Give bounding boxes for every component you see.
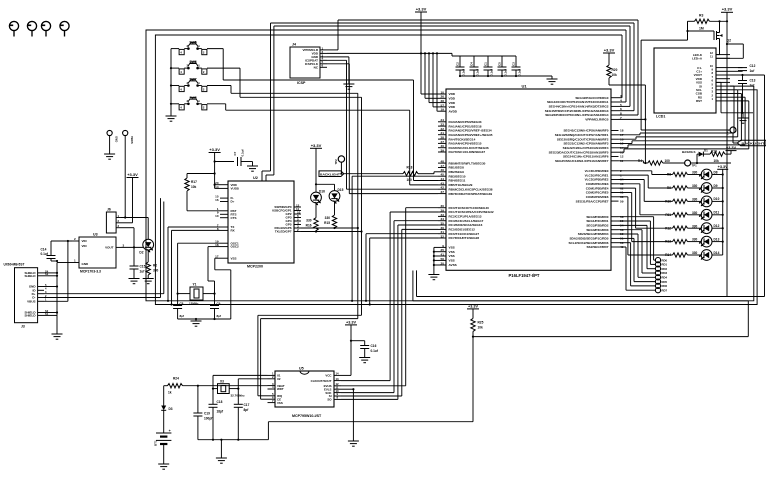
- ground C16: [359, 358, 370, 363]
- svg-text:C9: C9: [217, 302, 221, 306]
- svg-text:D10: D10: [714, 197, 720, 201]
- svg-text:21: 21: [441, 131, 445, 135]
- diode D1 BAS20LS: [682, 149, 710, 164]
- capacitor C5 bypass: [498, 56, 508, 76]
- wire LCD LED+A to 3.3V rail: [716, 44, 743, 58]
- svg-text:RB6/ICDCLK/ICSPCLK/SEG38: RB6/ICDCLK/ICSPCLK/SEG38: [449, 187, 493, 191]
- resistor R16 330 D16: [306, 218, 319, 232]
- svg-text:AVDD: AVDD: [449, 109, 458, 113]
- svg-text:+3.3V: +3.3V: [718, 165, 728, 169]
- node VBUS circle 1: [107, 130, 119, 154]
- resistor R24 1k: [164, 377, 268, 395]
- wire U2 RX via loop: [172, 230, 221, 304]
- wire R25 loop to RD7: [413, 271, 748, 337]
- svg-text:VSS: VSS: [449, 254, 455, 258]
- transistor Q2 P-MOSFET: [688, 21, 723, 54]
- svg-text:Q2: Q2: [727, 39, 732, 43]
- wire GP7 row: [301, 231, 362, 233]
- wire top line J4 VPP to U1 RG4: [327, 20, 638, 50]
- svg-text:RB2/SEG9: RB2/SEG9: [449, 170, 465, 174]
- svg-text:10k: 10k: [612, 73, 618, 77]
- svg-text:R2: R2: [153, 264, 157, 268]
- svg-text:R11: R11: [665, 213, 671, 217]
- U1 right pins group RD: [611, 217, 619, 247]
- svg-text:10k: 10k: [478, 326, 484, 330]
- svg-text:CLKOUT/SOUT: CLKOUT/SOUT: [311, 379, 332, 383]
- wire J3 shield/gnd bus: [44, 263, 72, 335]
- svg-text:+3.3V: +3.3V: [311, 143, 322, 148]
- node TP1: [685, 160, 697, 167]
- wire U5 SI to U1 RC5: [341, 229, 438, 396]
- capacitor C18 18pf: [209, 389, 224, 440]
- wire U1 RC6 TX1 via loop: [366, 234, 438, 301]
- svg-text:MCP1703-3.3: MCP1703-3.3: [80, 270, 101, 274]
- svg-text:330: 330: [692, 251, 698, 255]
- switch SW5: [179, 41, 207, 55]
- LED D16: [311, 190, 325, 218]
- resistor R2 330: [146, 262, 159, 279]
- U2 left pin labels: [231, 183, 240, 260]
- svg-text:VBUS: VBUS: [27, 300, 35, 304]
- wire GP6 row: [301, 227, 358, 229]
- power flag +3.3V J6: [127, 172, 139, 223]
- svg-text:TP2: TP2: [334, 159, 338, 165]
- switch SW6: [179, 60, 207, 74]
- svg-text:R16: R16: [306, 224, 312, 228]
- wire outer loop 1: [146, 30, 754, 301]
- resistor R3 1M: [688, 14, 728, 31]
- U1 right pins group RE: [611, 171, 619, 201]
- power flag +3.3V U1 bypass rail: [415, 7, 427, 54]
- ground Y1 caps: [191, 321, 202, 326]
- ground C7: [247, 166, 258, 171]
- LED D15: [329, 188, 343, 215]
- svg-text:10k: 10k: [714, 159, 720, 163]
- svg-text:1M: 1M: [699, 27, 704, 31]
- svg-text:13: 13: [336, 377, 340, 381]
- capacitor C2 bypass: [456, 56, 466, 76]
- U1 left pins group B RA0-RA7: [438, 122, 446, 152]
- svg-text:RA7/OSC1/CLKIN/SEG37: RA7/OSC1/CLKIN/SEG37: [449, 150, 486, 154]
- net label BACKLIGHT: [319, 171, 403, 177]
- capacitor C4 bypass: [470, 56, 480, 76]
- wire VDD rail: [327, 53, 516, 56]
- svg-text:Y1: Y1: [193, 283, 197, 287]
- wire J6 pin2 to +3.3V: [121, 222, 133, 224]
- svg-text:D11: D11: [714, 211, 720, 215]
- svg-text:+3.3V: +3.3V: [722, 7, 733, 12]
- node RD0: [619, 217, 668, 263]
- IC U5 MCP795W10 RTC body: [268, 367, 342, 419]
- svg-text:VUSB: VUSB: [231, 187, 240, 191]
- svg-text:56: 56: [441, 257, 445, 261]
- svg-text:RX: RX: [231, 229, 235, 233]
- crystal X3 32.768kHz: [213, 379, 245, 397]
- svg-text:J4: J4: [292, 43, 296, 47]
- node VBUS circle 2: [123, 130, 134, 217]
- svg-text:100: 100: [665, 159, 671, 163]
- svg-text:D9: D9: [714, 184, 718, 188]
- wire crystal ground rail: [198, 440, 269, 458]
- resistor R15 330 D15: [324, 215, 337, 228]
- svg-text:R15: R15: [324, 221, 330, 225]
- wire MCLR net: [619, 85, 646, 163]
- resistor R4 100: [638, 159, 731, 165]
- wire USB D+ to U2: [44, 202, 164, 294]
- power flag +3.3V backlight: [721, 7, 733, 22]
- wire U1 RG4 riser: [619, 20, 639, 115]
- ground R2: [143, 279, 154, 284]
- wire MCLR row R4: [619, 161, 648, 163]
- wire U5 CLKOUT to U1 RC1: [341, 212, 438, 381]
- svg-text:VSS: VSS: [449, 259, 455, 263]
- ground J3: [52, 334, 63, 339]
- connector J3 USB UX60-MB-5ST: [4, 263, 49, 329]
- svg-text:D1: D1: [704, 149, 708, 153]
- wire U1 RG2 riser: [619, 26, 631, 106]
- svg-text:R17: R17: [191, 180, 197, 184]
- node RD3: [619, 230, 668, 276]
- svg-text:330: 330: [692, 224, 698, 228]
- svg-text:U3: U3: [93, 233, 98, 237]
- ground U5: [348, 441, 359, 446]
- diode D3: [161, 386, 173, 430]
- wire switch ground bus: [171, 49, 179, 116]
- svg-text:R13: R13: [665, 240, 671, 244]
- capacitor C8 8pf: [173, 294, 184, 319]
- svg-text:TXLED/GP7: TXLED/GP7: [275, 230, 292, 234]
- svg-text:VIN: VIN: [82, 244, 87, 248]
- svg-text:100pf: 100pf: [204, 417, 213, 421]
- svg-text:330: 330: [692, 211, 698, 215]
- svg-text:VSS: VSS: [231, 256, 237, 260]
- svg-text:SW6: SW6: [189, 60, 196, 64]
- node TP2: [334, 156, 345, 174]
- svg-text:330: 330: [692, 171, 698, 175]
- svg-text:8: 8: [620, 111, 622, 115]
- svg-text:RB0/INT/SRI/FLT0/SEG30: RB0/INT/SRI/FLT0/SEG30: [449, 161, 486, 165]
- svg-text:+3.3V: +3.3V: [209, 147, 220, 152]
- svg-text:R18: R18: [407, 166, 413, 170]
- ground C15: [129, 279, 140, 284]
- svg-text:R24: R24: [173, 377, 179, 381]
- wire VDD ladder to U1 pins: [421, 53, 438, 111]
- svg-text:R3: R3: [699, 14, 703, 18]
- svg-text:MCP795W10-I/ST: MCP795W10-I/ST: [292, 414, 322, 418]
- capacitor C3 bypass: [512, 56, 522, 76]
- svg-text:U1: U1: [521, 84, 527, 89]
- capacitor C1 bypass: [484, 56, 494, 76]
- svg-text:SEG25/SS1/C12IN3-/CPS16/AN5/RF: SEG25/SS1/C12IN3-/CPS16/AN5/RF7: [555, 159, 609, 163]
- wire ICSPDAT to U1 RB6: [327, 60, 438, 189]
- svg-text:C4: C4: [470, 62, 474, 66]
- svg-text:R20: R20: [612, 68, 618, 72]
- wire vertical pair to U2: [262, 23, 274, 181]
- svg-text:RC1/T1OSCI/P2A/CCP2/SEG32: RC1/T1OSCI/P2A/CCP2/SEG32: [449, 210, 494, 214]
- svg-text:0.1uf: 0.1uf: [518, 69, 522, 76]
- svg-text:OSC2: OSC2: [231, 245, 240, 249]
- svg-text:R25: R25: [478, 321, 484, 325]
- ground U1 VSS: [428, 275, 439, 280]
- svg-text:VCC: VCC: [325, 374, 332, 378]
- capacitor C17 8pf: [234, 389, 250, 440]
- svg-text:R14: R14: [665, 253, 671, 257]
- svg-text:R8: R8: [667, 173, 671, 177]
- svg-text:0.1uf: 0.1uf: [490, 69, 494, 76]
- svg-text:D3: D3: [169, 407, 173, 411]
- wire U5 SCK to U1 RC3: [341, 221, 438, 393]
- svg-text:SEG19/SRNQ/C2OUT/CPS7/AN7/RF1: SEG19/SRNQ/C2OUT/CPS7/AN7/RF1: [555, 133, 609, 137]
- U1 left pins group D RC0-RC7: [438, 208, 446, 238]
- wire J6 pin3 to VOUT: [121, 228, 134, 248]
- svg-text:37: 37: [441, 190, 445, 194]
- ground net circle 1: [104, 154, 115, 159]
- wire U1 RG1 riser: [619, 30, 627, 102]
- svg-text:R12: R12: [665, 226, 671, 230]
- LED D2 power: [139, 239, 153, 262]
- wire R25 bottom loop to U5: [268, 422, 473, 440]
- wire U1 RB3 to loop: [352, 176, 438, 301]
- resistor R25 10k: [471, 318, 484, 421]
- svg-text:WDT: WDT: [277, 387, 284, 391]
- svg-text:C16: C16: [371, 344, 377, 348]
- svg-text:29: 29: [441, 208, 445, 212]
- svg-text:BT1: BT1: [154, 440, 158, 446]
- svg-text:C1: C1: [484, 62, 488, 66]
- op-amp U1 microcontroller PIC16LF1947 body: [446, 84, 611, 278]
- U1 right pins group RF: [611, 131, 619, 161]
- svg-text:TP3: TP3: [726, 129, 730, 135]
- wire OSC1 to Y1: [178, 243, 220, 293]
- svg-text:10k: 10k: [191, 185, 197, 189]
- svg-text:J6: J6: [107, 208, 111, 212]
- svg-text:41: 41: [441, 252, 445, 256]
- wire LCD RST to U1 RF5: [619, 101, 749, 152]
- svg-text:C17: C17: [244, 403, 250, 407]
- wire U3 VOUT rail: [121, 246, 143, 248]
- svg-text:0.1uf: 0.1uf: [504, 69, 508, 76]
- capacitor C15 1uf: [130, 247, 146, 278]
- svg-text:330: 330: [692, 198, 698, 202]
- svg-text:SW8: SW8: [189, 96, 196, 100]
- svg-text:D13: D13: [714, 237, 720, 241]
- mounting hole MH1: [9, 21, 18, 36]
- switch SW7: [179, 78, 207, 92]
- wire SW8 to U1 RB5: [207, 104, 438, 185]
- wire USB D- to U2: [44, 198, 161, 297]
- svg-text:+3.3V: +3.3V: [726, 146, 736, 150]
- svg-text:X3: X3: [220, 379, 224, 383]
- LCD module LCD1: [654, 48, 730, 119]
- power flag +3.3V R25: [467, 304, 479, 318]
- wire VIN rail from VBUS: [44, 241, 72, 301]
- wire LCD SCL to U1 RF2: [619, 90, 738, 139]
- svg-text:19: 19: [441, 108, 445, 112]
- svg-text:RC4/SDI1/SDA1/SEG16: RC4/SDI1/SDA1/SEG16: [449, 223, 483, 227]
- svg-text:0.1uf: 0.1uf: [241, 149, 245, 156]
- svg-text:BAS20LS: BAS20LS: [682, 150, 696, 154]
- LED row D8 R8: [619, 169, 724, 180]
- svg-text:RB7/ICDDAT/ICSPDAT/SEG39: RB7/ICDDAT/ICSPDAT/SEG39: [449, 192, 493, 196]
- svg-text:14: 14: [336, 372, 340, 376]
- wire U2 VSS to ground rail: [178, 258, 231, 321]
- U1 left pins group A VDD/AVDD: [438, 94, 446, 111]
- svg-text:100: 100: [407, 178, 413, 182]
- svg-text:330: 330: [306, 219, 312, 223]
- svg-text:SEG31/P2A/CCP2/RE7: SEG31/P2A/CCP2/RE7: [576, 199, 609, 203]
- resistor R18 100: [403, 166, 438, 183]
- svg-text:59: 59: [620, 199, 624, 203]
- LED row D14 R14: [619, 197, 723, 261]
- svg-text:10: 10: [215, 214, 219, 218]
- svg-text:35: 35: [441, 221, 445, 225]
- svg-text:D12: D12: [714, 224, 720, 228]
- svg-text:+3.3V: +3.3V: [127, 172, 138, 177]
- svg-text:SW7: SW7: [189, 78, 196, 82]
- capacitor C12 1uf: [730, 64, 756, 73]
- svg-text:R10: R10: [665, 200, 671, 204]
- svg-text:+3.3V: +3.3V: [468, 304, 478, 308]
- svg-text:SHIELD: SHIELD: [24, 274, 36, 278]
- svg-text:+3.3V: +3.3V: [346, 320, 356, 324]
- resistor R20 MCLR pullup: [603, 48, 645, 86]
- svg-text:UX60-MB-5ST: UX60-MB-5ST: [4, 263, 25, 267]
- U2 right pin labels: [272, 205, 292, 234]
- svg-text:R4: R4: [638, 159, 642, 163]
- wire SW6 loop to U5 IRQ: [207, 68, 362, 396]
- svg-text:4: 4: [620, 98, 622, 102]
- svg-text:330: 330: [692, 238, 698, 242]
- svg-text:D16: D16: [319, 190, 325, 194]
- wire top line 3: [274, 25, 630, 27]
- LED row D11 R11: [619, 184, 724, 220]
- capacitor C7 0.1uf: [215, 149, 253, 166]
- svg-text:MCP2200: MCP2200: [247, 265, 263, 269]
- svg-text:48: 48: [441, 160, 445, 164]
- power flag +3.3V U2: [209, 147, 221, 188]
- connector J6: [106, 208, 121, 234]
- svg-text:VLCD2/P2C/RE1: VLCD2/P2C/RE1: [585, 173, 609, 177]
- svg-text:+3.3V: +3.3V: [416, 7, 427, 12]
- svg-text:330: 330: [325, 216, 331, 220]
- svg-text:LED+A: LED+A: [692, 57, 703, 61]
- svg-text:C3: C3: [512, 62, 516, 66]
- node RD7: [619, 247, 668, 293]
- switch SW8: [179, 96, 207, 110]
- svg-text:AVSS: AVSS: [449, 263, 457, 267]
- wire U1 RG0 riser: [619, 35, 623, 98]
- wire LCD SI to U1 RF1: [619, 86, 735, 135]
- svg-text:0.1uf: 0.1uf: [371, 349, 379, 353]
- wire LCD RS to U1 RF4: [619, 97, 746, 148]
- svg-text:R9: R9: [667, 186, 671, 190]
- power flag +3.3V LED rail: [717, 165, 728, 255]
- wire U5 EVLS to ground: [341, 389, 353, 441]
- svg-text:D+: D+: [231, 200, 235, 204]
- regulator U3 MCP1703: [72, 233, 125, 274]
- svg-text:C2: C2: [456, 62, 460, 66]
- svg-text:0.1uf: 0.1uf: [41, 252, 49, 256]
- connector J4 ICSP: [290, 43, 327, 86]
- svg-text:0.1uf: 0.1uf: [476, 69, 480, 76]
- node RD1: [619, 221, 668, 267]
- node TP3 backlight: [726, 127, 737, 143]
- svg-text:8pf: 8pf: [217, 314, 222, 318]
- capacitor C9 8pf: [210, 294, 221, 319]
- svg-text:P16LF1947-I/PT: P16LF1947-I/PT: [509, 273, 540, 278]
- wire outer loop 2: [155, 35, 757, 305]
- IC U2 MCP2200 body: [228, 176, 294, 269]
- svg-text:12MHz: 12MHz: [189, 302, 199, 306]
- svg-text:330: 330: [153, 269, 159, 273]
- wire U1 RG3 riser: [619, 23, 635, 111]
- svg-text:C12: C12: [750, 64, 756, 68]
- power flag +3.3V R19: [726, 146, 737, 150]
- svg-text:16: 16: [215, 198, 219, 202]
- node RD6: [619, 243, 668, 289]
- svg-text:VBUS: VBUS: [130, 136, 134, 144]
- svg-text:C19: C19: [204, 412, 210, 416]
- crystal Y1 12MHz: [178, 283, 215, 306]
- svg-text:C18: C18: [217, 400, 223, 404]
- wire U5 X2 to crystal: [238, 379, 267, 389]
- svg-text:LCD1: LCD1: [656, 115, 665, 119]
- LED row D13 R13: [619, 193, 724, 247]
- svg-text:SW5: SW5: [189, 41, 196, 45]
- wire Q2 gate from backlight net: [641, 40, 730, 130]
- svg-text:VIN: VIN: [82, 239, 87, 243]
- svg-text:TP1: TP1: [692, 163, 698, 167]
- LED row D12 R12: [619, 188, 724, 233]
- battery BT1: [154, 429, 172, 464]
- capacitor C13 1uf: [738, 74, 756, 113]
- svg-text:18pf: 18pf: [217, 410, 224, 414]
- svg-text:GND: GND: [115, 136, 119, 142]
- resistor R17 10k: [185, 174, 220, 211]
- wire U5 SO to U1 RC4: [341, 225, 438, 399]
- wire LCD CSB to U1 RF3: [619, 94, 742, 144]
- svg-text:SEG26/P3D/CCP5/C3IN1-/CPS12/AN: SEG26/P3D/CCP5/C3IN1-/CPS12/AN12/RG4: [545, 113, 609, 117]
- svg-text:C5: C5: [498, 62, 502, 66]
- svg-text:44: 44: [441, 177, 445, 181]
- ground BT1: [158, 464, 169, 469]
- svg-text:VPP/MCLR/RG5: VPP/MCLR/RG5: [585, 118, 608, 122]
- svg-text:RST: RST: [696, 99, 702, 103]
- wire bypass ground rail: [460, 76, 552, 79]
- svg-text:42: 42: [441, 186, 445, 190]
- wire U5 EVHS to U1 RC0: [341, 208, 438, 386]
- svg-text:RB4/SEG11: RB4/SEG11: [449, 179, 466, 183]
- power flag +3.3V D15 D16: [310, 143, 335, 192]
- wire LCD VSS to ground: [716, 82, 753, 118]
- svg-text:SEG22/C2IN+/CPS10/AN10/RF4: SEG22/C2IN+/CPS10/AN10/RF4: [563, 146, 609, 150]
- svg-text:+3.3V: +3.3V: [604, 48, 615, 53]
- svg-text:11: 11: [710, 55, 713, 59]
- mounting hole MH4: [60, 21, 69, 36]
- svg-text:D14: D14: [714, 251, 720, 255]
- svg-text:D15: D15: [338, 188, 344, 192]
- svg-text:CTS: CTS: [231, 216, 237, 220]
- svg-text:VSS: VSS: [277, 401, 283, 405]
- svg-text:U5: U5: [299, 367, 304, 371]
- svg-text:BACKLIGHT: BACKLIGHT: [320, 172, 340, 176]
- LED row D10 R10: [619, 180, 724, 207]
- U1 left pins group E VSS: [438, 247, 446, 265]
- wire U1 VSS bus to ground: [434, 247, 438, 274]
- mounting hole MH3: [41, 21, 50, 36]
- ground crystal: [216, 458, 227, 463]
- net label BACKLIGHT right: [733, 140, 766, 146]
